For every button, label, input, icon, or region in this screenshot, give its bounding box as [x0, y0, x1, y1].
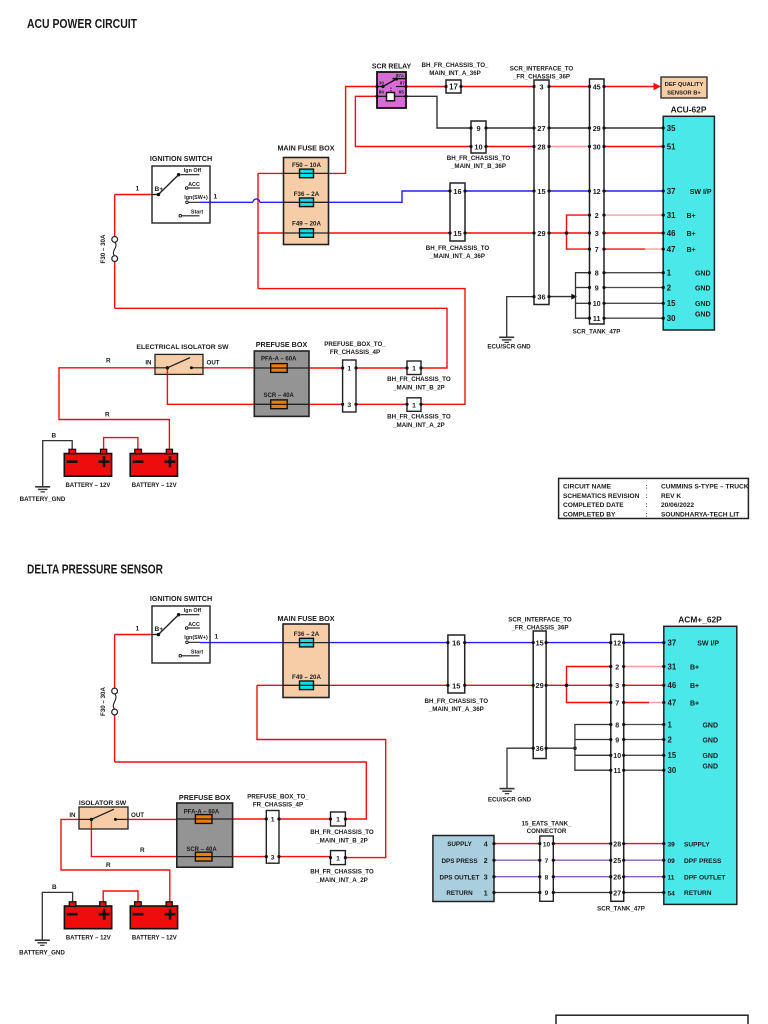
svg-text:4: 4 — [484, 842, 488, 849]
svg-text:SOUNDHARYA-TECH LIT: SOUNDHARYA-TECH LIT — [661, 511, 739, 518]
svg-text:SW I/P: SW I/P — [690, 189, 712, 196]
wire 4P pin3 to INT_A_2P (bottom) — [279, 856, 331, 858]
svg-text:MAIN_INT_A_36P: MAIN_INT_A_36P — [429, 70, 481, 77]
svg-text:12: 12 — [613, 641, 621, 648]
svg-text:27: 27 — [613, 890, 621, 897]
svg-text:BH_FR_CHASSIS_TO: BH_FR_CHASSIS_TO — [447, 155, 511, 162]
svg-text:BATTERY – 12V: BATTERY – 12V — [65, 483, 110, 489]
wire prefuse SCR-40A to 4P connector pin3 (top) — [309, 403, 343, 405]
svg-text:3: 3 — [539, 82, 543, 91]
svg-text:_MAIN_INT_B_2P: _MAIN_INT_B_2P — [392, 385, 445, 392]
svg-text:OUT: OUT — [207, 360, 220, 367]
connector SCR_TANK_47P (top) — [573, 79, 621, 336]
svg-text:GND: GND — [695, 301, 711, 308]
svg-text:IN: IN — [69, 812, 76, 819]
wire connector 10 to interface pin28 (top) — [486, 146, 534, 148]
svg-text:PFA-A – 60A: PFA-A – 60A — [261, 356, 297, 362]
wire tank pin2 to ACM pin31 pink (bottom) — [624, 666, 664, 668]
svg-text::: : — [646, 484, 648, 491]
info table (top circuit) — [559, 478, 749, 518]
wire interface pin27 to tank pin29 (top) — [549, 127, 590, 129]
svg-text:PREFUSE_BOX_TO_: PREFUSE_BOX_TO_ — [324, 341, 386, 348]
svg-text:SCR – 40A: SCR – 40A — [264, 393, 295, 399]
ground bracket pins 8-9-10-11 (top) — [576, 273, 590, 319]
svg-text:10: 10 — [593, 299, 601, 308]
svg-text::: : — [646, 511, 648, 518]
svg-text:_MAIN_INT_A_36P: _MAIN_INT_A_36P — [429, 253, 485, 260]
svg-text:30: 30 — [379, 80, 385, 85]
wire isolator OUT to prefuse PFA-A input (top) — [203, 367, 254, 369]
wire 4P pin1 to BH_FR_CHASSIS_TO_MAIN_INT_B_2P (top) — [356, 367, 407, 369]
wire connector 16 to interface pin15 blue (bottom) — [465, 642, 534, 644]
svg-text:45: 45 — [593, 82, 601, 91]
svg-text:10: 10 — [613, 753, 621, 760]
wire battery1+ to battery2- (bottom) — [103, 891, 138, 902]
wire DPS RETURN to EATS pin9 — [494, 892, 540, 894]
wire 4P pin3 to BH_FR_CHASSIS_TO_MAIN_INT_A_2P (top) — [356, 403, 407, 405]
wire interface pin15 to tank pin12 blue (top) — [549, 190, 590, 192]
wire tank pin11 to ACU pin30 GND (top) — [604, 317, 663, 319]
ground symbol BATTERY_GND (top) — [20, 487, 66, 503]
wire tank pin10 to ACU pin15 GND (top) — [604, 302, 663, 304]
svg-text:BH_FR_CHASSIS_TO: BH_FR_CHASSIS_TO — [387, 376, 451, 383]
isolator switch ELECTRICAL ISOLATOR SW (top) — [136, 344, 229, 374]
wire interface pin36 to ground bracket (top) — [549, 294, 577, 300]
wire EATS pin8 to tank pin26 purple — [553, 876, 611, 878]
connector BH_FR_CHASSIS_TO_MAIN_INT_A_2P (bottom) — [310, 851, 374, 884]
partial info table at page bottom — [556, 1015, 748, 1024]
label 1 at ignition B+ (bottom) — [136, 626, 140, 633]
ground symbol ECU/SCR GND (bottom) — [488, 789, 532, 804]
svg-text:3: 3 — [595, 229, 599, 238]
svg-text:BATTERY_GND: BATTERY_GND — [19, 950, 65, 957]
ground bracket pins 8-9-10-11 (bottom) — [575, 725, 611, 771]
wire blue F36 to connector 16 (bottom) — [329, 642, 448, 644]
svg-text:F50 – 10A: F50 – 10A — [292, 162, 321, 169]
svg-text:ACU POWER CIRCUIT: ACU POWER CIRCUIT — [27, 16, 137, 31]
wire INT_A_2P up to main fuse box feed (top) — [258, 289, 465, 405]
svg-text:F36 – 2A: F36 – 2A — [294, 631, 320, 638]
svg-text:7: 7 — [615, 700, 619, 707]
svg-text:36: 36 — [537, 293, 545, 302]
svg-text:51: 51 — [667, 142, 676, 151]
junction dots (bottom circuit) — [265, 641, 666, 894]
svg-text:46: 46 — [668, 681, 677, 690]
wire interface pin36 to ground bracket (bottom) — [546, 746, 577, 750]
svg-text:87a: 87a — [396, 73, 404, 78]
svg-text:B: B — [52, 884, 57, 891]
fuse SCR 40A (top) — [254, 393, 309, 409]
svg-text:7: 7 — [595, 245, 599, 254]
svg-text:DELTA PRESSURE SENSOR: DELTA PRESSURE SENSOR — [27, 561, 163, 576]
svg-text:B+: B+ — [690, 664, 699, 671]
wire relay pin86 feed (top) — [355, 96, 471, 146]
wire prefuse SCR to 4P pin3 (bottom) — [233, 856, 267, 858]
svg-text:BH_FR_CHASSIS_TO: BH_FR_CHASSIS_TO — [387, 414, 451, 421]
wire interface pin3 to tank pin45 (top) — [549, 86, 590, 88]
ignition switch (top circuit) — [150, 154, 212, 223]
wire battery1- to battery ground (top) — [43, 441, 72, 487]
wire interface pin29 to tank pin3 (top) — [549, 232, 590, 234]
svg-text:PREFUSE_BOX_TO_: PREFUSE_BOX_TO_ — [247, 794, 309, 801]
svg-text:86: 86 — [379, 90, 385, 95]
svg-text:_MAIN_INT_A_2P: _MAIN_INT_A_2P — [392, 422, 445, 429]
wire interface pin36 to ECU/SCR ground (bottom) — [507, 748, 533, 788]
svg-text:20/06/2022: 20/06/2022 — [661, 502, 694, 509]
svg-text:37: 37 — [667, 187, 676, 196]
svg-text:BATTERY – 12V: BATTERY – 12V — [66, 935, 111, 941]
connector BH_FR_CHASSIS_TO_MAIN_INT_B_36P pins 9/10 (top) — [447, 121, 511, 170]
fuse F36-2A — [284, 191, 329, 207]
svg-text:_MAIN_INT_A_36P: _MAIN_INT_A_36P — [428, 706, 484, 713]
svg-text:15: 15 — [667, 299, 676, 308]
wire F49 left lead (bottom) — [257, 684, 283, 686]
svg-text:7: 7 — [545, 858, 549, 865]
svg-text:_MAIN_INT_B_36P: _MAIN_INT_B_36P — [450, 163, 506, 170]
svg-text:15: 15 — [452, 681, 460, 690]
svg-text:1: 1 — [271, 817, 275, 824]
svg-text:BH_FR_CHASSIS_TO: BH_FR_CHASSIS_TO — [310, 829, 374, 836]
wire tank pin8 to ACU pin1 GND (top) — [604, 272, 663, 274]
svg-text:ISOLATOR SW: ISOLATOR SW — [79, 800, 127, 807]
svg-text:PREFUSE BOX: PREFUSE BOX — [256, 340, 308, 349]
svg-text:SCR_INTERFACE_TO: SCR_INTERFACE_TO — [508, 617, 572, 624]
fuse F50-10A — [284, 162, 329, 178]
svg-text:B: B — [52, 432, 57, 439]
svg-text:1: 1 — [667, 269, 672, 278]
svg-text:9: 9 — [476, 124, 480, 133]
svg-text:12: 12 — [593, 187, 601, 196]
title DELTA PRESSURE SENSOR — [27, 561, 163, 576]
svg-text:85: 85 — [399, 90, 405, 95]
wire F30 vertical to ignition B+ (bottom) — [115, 635, 159, 763]
wires tank pins 8-11 to ACM GND pins (bottom) — [624, 725, 664, 771]
svg-text:PREFUSE BOX: PREFUSE BOX — [179, 793, 231, 802]
wire tank pin30 to ACU pin51 (top) — [604, 146, 663, 148]
svg-text:30: 30 — [668, 766, 677, 775]
wire INT_A_2P up to F49 feed (bottom) — [257, 685, 386, 857]
svg-text:GND: GND — [695, 285, 711, 292]
wire F49 to connector 15 (top) — [329, 232, 451, 234]
svg-text:15: 15 — [537, 187, 545, 196]
wire tank pin26 to ACM pin11 purple — [624, 876, 664, 878]
battery B2 12V (top) — [130, 449, 177, 489]
fuse PFA-A 60A (bottom) — [177, 810, 233, 824]
wire tank pin12 to ACU pin37 blue (top) — [604, 190, 663, 192]
svg-text:17: 17 — [449, 83, 458, 92]
connector PREFUSE_BOX_TO_FR_CHASSIS_4P (bottom) — [247, 794, 309, 864]
svg-text:RETURN: RETURN — [446, 890, 473, 897]
svg-text:B+: B+ — [690, 683, 699, 690]
wire DPS PRESS to EATS pin7 purple — [494, 859, 540, 861]
connector BH_FR_CHASSIS_TO_MAIN_INT_A_36P pins 16/15 (bottom) — [425, 635, 489, 713]
svg-text:SCHEMATICS REVISION: SCHEMATICS REVISION — [563, 493, 640, 500]
svg-text:Ign Off: Ign Off — [184, 608, 202, 614]
svg-text:B+: B+ — [687, 213, 696, 220]
label B on battery ground wire (top) — [52, 432, 57, 439]
svg-text:11: 11 — [668, 875, 675, 882]
svg-text:26: 26 — [613, 875, 621, 882]
svg-text:F49 – 20A: F49 – 20A — [292, 221, 321, 228]
svg-text:IGNITION SWITCH: IGNITION SWITCH — [150, 154, 212, 163]
label 1 at ignition SW+ output (top) — [214, 194, 218, 201]
wire tank pin12 to ACM pin37 blue (bottom) — [624, 642, 664, 644]
wire interface pin15 to tank pin12 blue (bottom) — [546, 642, 611, 644]
svg-text:GND: GND — [702, 753, 718, 760]
wire interface pin28 to tank pin30 pink (top) — [549, 146, 590, 148]
svg-text:F30 – 30A: F30 – 30A — [100, 687, 107, 716]
svg-text:3: 3 — [484, 875, 488, 882]
svg-text:COMPLETED DATE: COMPLETED DATE — [563, 502, 624, 509]
svg-text:SCR_TANK_47P: SCR_TANK_47P — [597, 906, 645, 913]
bracket B+ pins 2-3-7 on tank connector (bottom) — [565, 667, 611, 703]
svg-text:54: 54 — [668, 890, 676, 897]
svg-text:Ign(SW+): Ign(SW+) — [184, 195, 208, 201]
svg-text:REV K: REV K — [661, 493, 681, 500]
wire tank pin45 to DEF QUALITY SENSOR with arrow (top) — [604, 83, 661, 91]
connector BH_FR_CHASSIS_TO_MAIN_INT_B_2P (bottom) — [310, 812, 374, 845]
wire interface pin36 to ECU/SCR ground (top) — [507, 297, 534, 337]
svg-text:BATTERY_GND: BATTERY_GND — [20, 496, 66, 503]
svg-text:BH_FR_CHASSIS_TO: BH_FR_CHASSIS_TO — [426, 245, 490, 252]
SCR relay U1 (top) — [372, 64, 412, 109]
svg-text:1: 1 — [214, 194, 218, 201]
label 1 at ignition B+ (top) — [136, 186, 140, 193]
svg-text:SCR RELAY: SCR RELAY — [372, 64, 412, 71]
wire F49 left lead (top) — [258, 232, 284, 234]
svg-text:SUPPLY: SUPPLY — [447, 841, 472, 848]
wire F50 left lead (top) — [258, 172, 284, 174]
svg-text:1: 1 — [136, 626, 140, 633]
svg-text:RETURN: RETURN — [684, 890, 712, 897]
wire tank pin2 to ACU pin31 pink (top) — [604, 214, 663, 216]
wire DPS OUTLET to EATS pin8 purple — [494, 876, 540, 878]
svg-text:3: 3 — [347, 402, 351, 409]
svg-text:BH_FR_CHASSIS_TO: BH_FR_CHASSIS_TO — [425, 698, 489, 705]
svg-text:2: 2 — [595, 211, 599, 220]
svg-text:MAIN FUSE BOX: MAIN FUSE BOX — [277, 614, 334, 623]
wire F50 to SCR relay pin30 (top) — [329, 87, 378, 174]
svg-text:ECU/SCR GND: ECU/SCR GND — [488, 797, 532, 804]
svg-text:Ign Off: Ign Off — [184, 168, 202, 174]
svg-text:ACC: ACC — [188, 182, 200, 188]
svg-text:FR_CHASSIS_4P: FR_CHASSIS_4P — [330, 349, 380, 356]
svg-text:F49 – 20A: F49 – 20A — [292, 674, 321, 681]
wire INT_B_2P up to F30 feed (bottom) — [115, 762, 367, 819]
svg-text:30: 30 — [667, 314, 676, 323]
svg-text:39: 39 — [668, 842, 676, 849]
svg-text:SENSOR B+: SENSOR B+ — [667, 90, 701, 96]
wire blue F36 to connector 16 with jog (top) — [329, 191, 451, 202]
wire blue ignition Ign(SW+) to main fuse box with hop (top) — [200, 199, 284, 202]
svg-text:29: 29 — [593, 124, 601, 133]
connector BH_FR_CHASSIS_TO_MAIN_INT_A_2P (top) — [387, 398, 451, 429]
battery B2 12V (bottom) — [130, 902, 177, 942]
wire relay pin85 to connector 9 (top) — [406, 96, 471, 128]
main fuse box (bottom) — [277, 614, 334, 698]
svg-text:15: 15 — [668, 751, 677, 760]
wire tank pin3 to ACM pin46 (bottom) — [624, 684, 664, 686]
svg-text:R: R — [140, 847, 145, 854]
svg-text:DPS OUTLET: DPS OUTLET — [440, 874, 480, 881]
svg-text:IGNITION SWITCH: IGNITION SWITCH — [150, 594, 212, 603]
svg-text:47: 47 — [668, 698, 677, 707]
svg-text:36: 36 — [535, 744, 543, 753]
svg-text:Ign(SW+): Ign(SW+) — [184, 635, 208, 641]
bracket B+ pins 2-3-7 on tank connector (top) — [565, 215, 590, 249]
svg-text:8: 8 — [545, 874, 549, 881]
label R on isolator feed wire (bottom) — [106, 847, 145, 869]
svg-text:GND: GND — [702, 722, 718, 729]
svg-text:47: 47 — [667, 245, 676, 254]
wire relay pin87 to connector 17 (top) — [406, 86, 446, 88]
svg-text:29: 29 — [537, 229, 545, 238]
wire tank pin29 to ACU pin35 (top) — [604, 127, 663, 129]
svg-text:1: 1 — [412, 366, 416, 373]
svg-text:OUT: OUT — [131, 812, 144, 819]
svg-text:FR_CHASSIS_4P: FR_CHASSIS_4P — [253, 801, 303, 808]
svg-text:ACC: ACC — [188, 622, 200, 628]
fuse SCR 40A (bottom) — [177, 847, 233, 861]
svg-text:SCR_INTERFACE_TO: SCR_INTERFACE_TO — [510, 66, 574, 73]
svg-text:30: 30 — [593, 142, 601, 151]
svg-text:R: R — [105, 411, 110, 418]
fuse F36-2A (bottom) — [283, 631, 329, 647]
svg-text:9: 9 — [595, 283, 599, 292]
connector BH_FR_CHASSIS_TO_MAIN_INT_A_36P pin 17 (top) — [422, 62, 489, 93]
svg-text:35: 35 — [667, 124, 676, 133]
svg-text:1: 1 — [347, 366, 351, 373]
svg-text:25: 25 — [613, 858, 621, 865]
fuse F49-20A (bottom) — [283, 674, 329, 690]
svg-text:SW I/P: SW I/P — [697, 641, 719, 648]
isolator switch ISOLATOR SW (bottom) — [69, 800, 144, 829]
svg-text:27: 27 — [537, 124, 545, 133]
svg-text:BATTERY – 12V: BATTERY – 12V — [132, 935, 177, 941]
svg-text:GND: GND — [695, 312, 711, 319]
svg-text:9: 9 — [545, 890, 549, 897]
wire battery1- to battery ground (bottom) — [42, 892, 72, 940]
wire connector 15 to interface pin29 (top) — [465, 232, 534, 234]
svg-text:1: 1 — [484, 890, 488, 897]
svg-text:11: 11 — [613, 768, 621, 775]
svg-text:09: 09 — [668, 858, 676, 865]
label 1 at ignition SW+ output (bottom) — [215, 634, 219, 641]
connector SCR_TANK_47P (bottom) — [597, 634, 645, 912]
wire tank pin7 to ACM pin47 (bottom) — [624, 702, 664, 704]
svg-text:CONNECTOR: CONNECTOR — [527, 828, 567, 835]
svg-text:F36 – 2A: F36 – 2A — [294, 191, 320, 198]
ECU ACM+_62P (bottom) — [664, 615, 737, 905]
wire DPS SUPPLY to EATS pin10 (bottom) — [494, 843, 540, 845]
wire connector 9 to interface pin27 (top) — [486, 127, 534, 129]
fuse F30-30A symbol (top) — [112, 237, 118, 262]
svg-text:_MAIN_INT_B_2P: _MAIN_INT_B_2P — [315, 838, 368, 845]
svg-text:3: 3 — [615, 683, 619, 690]
label F30-30A (top) — [100, 234, 107, 263]
wire prefuse PFA-A to 4P pin1 (bottom) — [233, 818, 267, 820]
wire battery2+ to isolator IN (bottom) — [61, 819, 170, 901]
wire tank pin25 to ACM pin09 purple — [624, 859, 664, 861]
wire INT_B_2P up to F30 fuse feed (top) — [115, 308, 447, 368]
connector BH_FR_CHASSIS_TO_MAIN_INT_A_36P pins 16/15 (top) — [426, 183, 490, 260]
svg-text:ACU-62P: ACU-62P — [671, 105, 707, 115]
label F30-30A (bottom) — [100, 687, 107, 716]
svg-text:BH_FR_CHASSIS_TO: BH_FR_CHASSIS_TO — [310, 868, 374, 875]
svg-text:IN: IN — [145, 360, 152, 367]
prefuse box (top) — [254, 340, 309, 417]
svg-text:2: 2 — [667, 283, 672, 292]
svg-text:SCR_TANK_47P: SCR_TANK_47P — [573, 329, 621, 336]
svg-text:1: 1 — [215, 634, 219, 641]
wire interface pin29 to tank pin3 (bottom) — [546, 684, 611, 686]
ECU ACU-62P (top) — [663, 105, 714, 331]
svg-text:16: 16 — [453, 187, 461, 196]
svg-text::: : — [646, 493, 648, 500]
ground symbol BATTERY_GND (bottom) — [19, 940, 65, 956]
ignition switch body — [152, 606, 210, 663]
svg-text:9: 9 — [615, 737, 619, 744]
wire isolator left contact down to prefuse SCR input (bottom) — [91, 819, 176, 856]
svg-text:29: 29 — [535, 681, 543, 690]
svg-text:DPS PRESS: DPS PRESS — [441, 858, 477, 865]
ignition switch (bottom circuit) — [150, 594, 212, 663]
svg-text:1: 1 — [668, 720, 673, 729]
svg-text:MAIN FUSE BOX: MAIN FUSE BOX — [277, 144, 334, 153]
wire isolator OUT to prefuse PFA-A (bottom) — [128, 818, 177, 820]
main fuse box (top) — [277, 144, 334, 245]
svg-text:87: 87 — [400, 80, 406, 85]
svg-text:GND: GND — [702, 737, 718, 744]
svg-text:BH_FR_CHASSIS_TO_: BH_FR_CHASSIS_TO_ — [422, 62, 489, 69]
svg-text:16: 16 — [452, 639, 460, 648]
svg-text:DEF QUALITY: DEF QUALITY — [665, 82, 704, 88]
svg-text:DPF OUTLET: DPF OUTLET — [684, 874, 725, 881]
svg-text:2: 2 — [668, 735, 673, 744]
svg-text:2: 2 — [484, 858, 488, 865]
wire EATS pin9 to tank pin27 — [553, 892, 611, 894]
connector SCR_INTERFACE_TO_FR_CHASSIS_36P (top) — [510, 66, 574, 305]
wire tank pin27 to ACM pin54 — [624, 892, 664, 894]
svg-text:15_EATS_TANK_: 15_EATS_TANK_ — [522, 820, 573, 827]
svg-text:ECU/SCR GND: ECU/SCR GND — [487, 344, 531, 351]
svg-text:Start: Start — [191, 210, 203, 216]
svg-text:1: 1 — [412, 402, 416, 409]
DEF QUALITY SENSOR B+ box (top) — [661, 77, 707, 98]
ground symbol ECU/SCR GND (top) — [487, 337, 531, 350]
svg-text:1: 1 — [136, 186, 140, 193]
svg-text:15: 15 — [535, 639, 543, 648]
ignition switch body — [152, 166, 210, 223]
svg-text:37: 37 — [668, 639, 677, 648]
svg-text:28: 28 — [537, 142, 545, 151]
junction dots (top circuit) — [341, 85, 665, 406]
wire tank pin3 to ACU pin46 (top) — [604, 232, 663, 234]
wire tank pin28 to ACM pin39 SUPPLY — [624, 843, 664, 845]
svg-text:GND: GND — [695, 271, 711, 278]
connector 15_EATS_TANK_CONNECTOR (bottom) — [522, 820, 573, 901]
fuse F49-20A — [284, 221, 329, 238]
wire prefuse PFA-A to 4P connector pin1 (top) — [309, 367, 343, 369]
svg-text:GND: GND — [702, 764, 718, 771]
svg-text:1: 1 — [336, 855, 340, 862]
svg-text:B+: B+ — [687, 231, 696, 238]
svg-text:10: 10 — [543, 841, 551, 848]
sensor DELTA PRESSURE SENSOR box (bottom) — [433, 836, 494, 902]
svg-text:11: 11 — [593, 314, 601, 323]
wire red vertical from fuse box F50/F49 down (top) — [257, 173, 259, 288]
svg-text:B+: B+ — [690, 700, 699, 707]
